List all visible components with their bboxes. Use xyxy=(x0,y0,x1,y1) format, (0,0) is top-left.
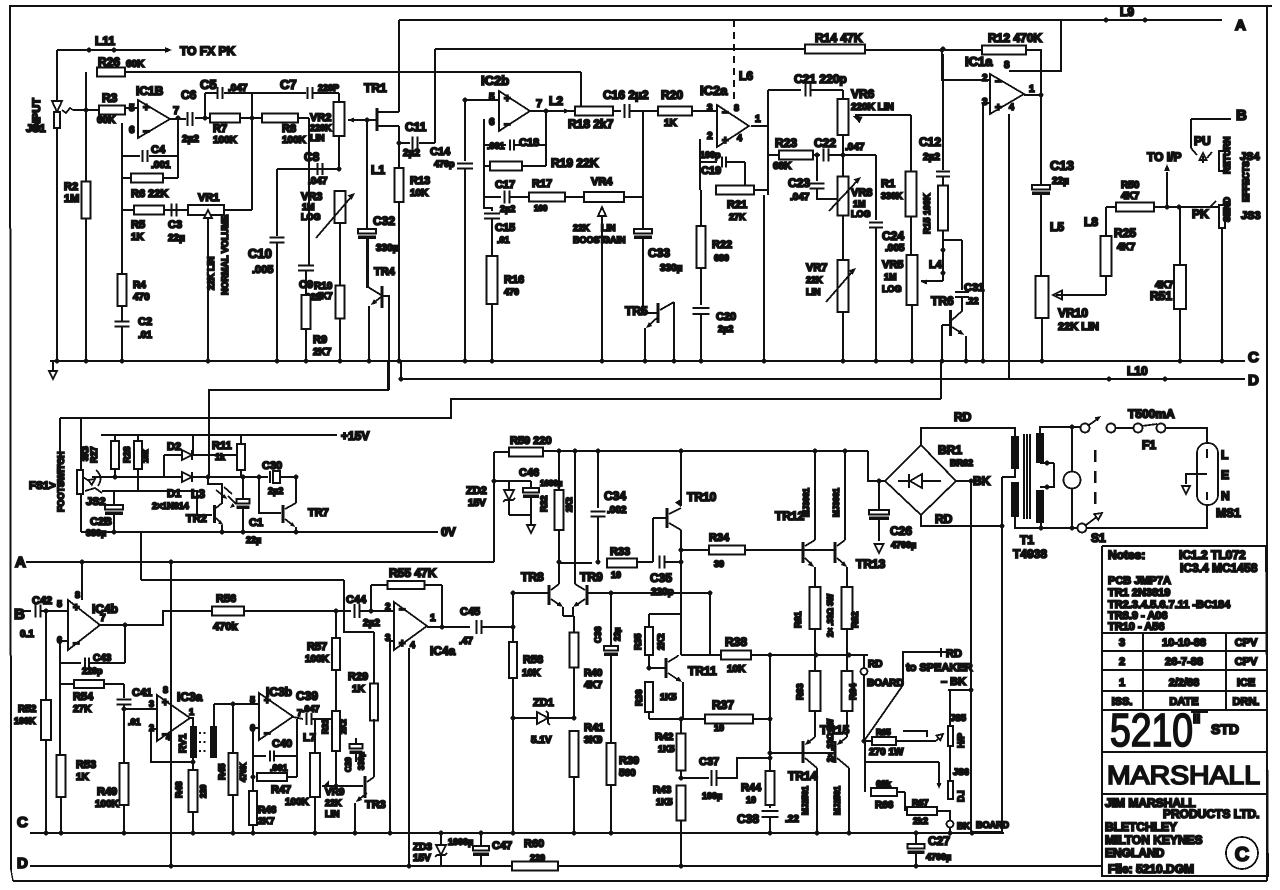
svg-text:LIN: LIN xyxy=(325,809,340,819)
svg-text:220: 220 xyxy=(530,853,545,863)
svg-text:L8: L8 xyxy=(1084,215,1098,229)
svg-text:ZD2: ZD2 xyxy=(466,485,487,497)
svg-text:1M: 1M xyxy=(64,193,79,205)
jack JS5 headphones xyxy=(949,690,951,726)
capacitor C30 2u2 xyxy=(243,476,268,478)
zener ZD3 15V xyxy=(440,833,442,845)
capacitor C28 330u xyxy=(113,491,115,505)
svg-text:22µ: 22µ xyxy=(168,233,185,244)
svg-text:R51: R51 xyxy=(1150,289,1172,303)
wire IC4a pin4 to rail D xyxy=(408,648,410,866)
svg-text:2: 2 xyxy=(385,602,391,613)
svg-text:2K7: 2K7 xyxy=(258,816,275,826)
wire C11 to +rail xyxy=(434,49,436,143)
resistor R56 470k xyxy=(212,607,244,616)
svg-text:4: 4 xyxy=(737,133,742,143)
svg-text:BR1: BR1 xyxy=(938,443,962,457)
svg-text:BR62: BR62 xyxy=(950,458,973,468)
wire T1 bottom xyxy=(1015,517,1077,528)
svg-text:1: 1 xyxy=(1029,84,1035,95)
wire IC4b output xyxy=(100,611,212,625)
svg-text:4K7: 4K7 xyxy=(1121,191,1140,202)
svg-text:22µ: 22µ xyxy=(613,627,622,641)
node L1 wire xyxy=(366,120,368,229)
svg-text:R20: R20 xyxy=(661,88,683,102)
svg-text:1K: 1K xyxy=(76,772,90,783)
svg-text:+: + xyxy=(264,695,270,707)
svg-text:330µ: 330µ xyxy=(86,528,106,538)
wire MS1 N to S1 xyxy=(1087,505,1207,528)
resistor R33 10 xyxy=(559,562,592,564)
svg-text:R3: R3 xyxy=(102,91,118,105)
resistor R10 4K7 xyxy=(336,286,345,319)
resistor R18 2k7 xyxy=(575,107,613,116)
capacitor C7 220P xyxy=(251,93,253,118)
svg-text:R35: R35 xyxy=(633,633,643,650)
svg-text:R19 22K: R19 22K xyxy=(551,156,599,170)
svg-text:BOOST: BOOST xyxy=(573,235,606,245)
svg-text:470: 470 xyxy=(504,287,519,297)
svg-text:TR5: TR5 xyxy=(625,304,648,318)
svg-text:D: D xyxy=(1248,372,1259,389)
svg-text:R16: R16 xyxy=(504,274,524,286)
svg-text:22K: 22K xyxy=(806,275,823,285)
svg-text:10K: 10K xyxy=(727,664,746,675)
svg-text:R64: R64 xyxy=(848,683,858,700)
svg-text:T500mA: T500mA xyxy=(1128,407,1175,421)
wire TR4 to footswitch xyxy=(383,296,389,390)
potentiometer VR9 22K LIN xyxy=(314,719,316,753)
resistor R9 2K7 xyxy=(302,295,311,329)
svg-text:330µ: 330µ xyxy=(660,263,683,274)
resistor R55 47K xyxy=(369,609,374,614)
svg-text:330µ: 330µ xyxy=(376,243,399,254)
svg-text:R22: R22 xyxy=(712,239,732,251)
svg-text:220p: 220p xyxy=(82,666,103,676)
svg-text:C10: C10 xyxy=(248,246,272,261)
svg-text:1: 1 xyxy=(755,114,761,125)
svg-text:L2: L2 xyxy=(549,94,563,108)
wire IC4b pin8 from net A xyxy=(80,560,85,565)
svg-text:0.1: 0.1 xyxy=(20,629,34,640)
svg-text:8: 8 xyxy=(75,590,80,600)
resistor R21 27K xyxy=(716,186,754,195)
resistor R59 220 xyxy=(494,451,509,453)
svg-text:R13: R13 xyxy=(410,175,430,187)
capacitor C32 330u xyxy=(358,229,376,234)
svg-text:BOARD: BOARD xyxy=(867,678,904,689)
resistor R45 470K xyxy=(231,702,236,707)
capacitor C11 2u2 xyxy=(397,141,402,146)
svg-text:R27: R27 xyxy=(89,446,99,463)
svg-text:100: 100 xyxy=(534,204,548,213)
zener ZD1 5.1V xyxy=(511,716,516,721)
svg-text:10-10-88: 10-10-88 xyxy=(1162,637,1206,649)
wire footswitch box left xyxy=(80,418,82,532)
svg-text:TR15: TR15 xyxy=(820,723,850,737)
svg-text:R37: R37 xyxy=(712,698,734,712)
potentiometer VR10 22K LIN xyxy=(1036,276,1049,318)
svg-text:MJ3001: MJ3001 xyxy=(802,488,811,517)
svg-text:BK: BK xyxy=(957,821,970,831)
svg-text:C1: C1 xyxy=(249,517,263,529)
resistor R25 4K7 xyxy=(1105,276,1107,295)
svg-text:C7: C7 xyxy=(280,77,297,92)
svg-text:8: 8 xyxy=(1004,60,1010,71)
svg-text:VR9: VR9 xyxy=(325,787,345,798)
svg-text:15V: 15V xyxy=(468,498,486,509)
svg-text:R32: R32 xyxy=(539,495,549,512)
svg-text:R15 100K: R15 100K xyxy=(922,193,932,234)
svg-text:R1: R1 xyxy=(881,178,895,190)
svg-text:470p: 470p xyxy=(434,159,455,169)
wire C8 line xyxy=(277,168,339,170)
svg-text:1: 1 xyxy=(1119,677,1125,689)
svg-text:1K5: 1K5 xyxy=(658,744,675,754)
capacitor C12 2u2 xyxy=(942,177,944,186)
svg-text:VR4: VR4 xyxy=(591,176,613,188)
svg-text:T1: T1 xyxy=(1020,533,1034,547)
resistor R27 3K3 xyxy=(114,435,116,445)
wire IC3b output xyxy=(293,717,303,719)
svg-text:+: + xyxy=(143,102,149,114)
svg-text:220K: 220K xyxy=(310,123,332,133)
svg-text:C40: C40 xyxy=(272,738,292,750)
svg-text:C20: C20 xyxy=(716,311,736,323)
capacitor C8 .047 xyxy=(317,163,319,175)
svg-text:R23: R23 xyxy=(775,136,797,150)
svg-text:VR8: VR8 xyxy=(851,187,872,199)
svg-text:PU: PU xyxy=(1194,134,1211,148)
svg-text:10: 10 xyxy=(746,795,756,805)
resistor R38 10K xyxy=(709,593,711,655)
svg-text:2K2: 2K2 xyxy=(565,497,574,512)
svg-text:LOG: LOG xyxy=(301,212,321,222)
wire T1 primary taps xyxy=(1040,462,1054,464)
svg-text:L10: L10 xyxy=(1127,364,1148,378)
svg-text:4: 4 xyxy=(1009,102,1014,112)
wire R38 output rail xyxy=(681,654,721,656)
svg-text:MJ3001: MJ3001 xyxy=(832,488,841,517)
resistor R58 10K xyxy=(511,625,516,630)
wire TR12 TR13 bases xyxy=(803,549,835,551)
capacitor C17 2u2 xyxy=(484,196,501,198)
resistor R23 68K xyxy=(768,154,780,156)
svg-text:JS2: JS2 xyxy=(86,496,106,508)
copyright symbol xyxy=(1226,837,1258,869)
svg-text:NORMAL VOLUME: NORMAL VOLUME xyxy=(220,215,230,295)
svg-text:4700µ: 4700µ xyxy=(891,540,916,550)
svg-text:.047: .047 xyxy=(790,192,810,203)
svg-text:D2: D2 xyxy=(167,441,181,453)
svg-text:+: + xyxy=(722,135,728,147)
svg-text:2K2: 2K2 xyxy=(656,633,666,650)
svg-text:4K7: 4K7 xyxy=(1117,242,1136,253)
earth symbol xyxy=(1186,474,1200,484)
svg-text:MARSHALL: MARSHALL xyxy=(1107,760,1260,790)
svg-text:ZD3: ZD3 xyxy=(413,842,432,853)
svg-text:R48: R48 xyxy=(174,781,184,798)
svg-text:VR5: VR5 xyxy=(882,259,903,271)
svg-text:RD: RD xyxy=(868,659,882,670)
wire fuse to MS1 xyxy=(1166,428,1207,449)
svg-text:4: 4 xyxy=(410,640,415,650)
transformer T1 T4938 secondary xyxy=(1011,436,1019,469)
svg-text:C42: C42 xyxy=(32,595,52,607)
svg-text:MILTON KEYNES: MILTON KEYNES xyxy=(1105,833,1203,847)
svg-text:CPV: CPV xyxy=(1235,637,1258,649)
svg-text:R46: R46 xyxy=(258,805,277,816)
svg-text:C22: C22 xyxy=(814,136,836,150)
svg-text:8: 8 xyxy=(734,103,739,113)
capacitor C5 .047 xyxy=(204,93,206,118)
wire R26 to IC2b xyxy=(125,71,581,73)
resistor R60 220 xyxy=(512,862,558,871)
svg-text:R33: R33 xyxy=(610,546,630,558)
svg-text:1k: 1k xyxy=(215,452,226,462)
resistor R12 470K xyxy=(865,49,982,51)
svg-text:C41: C41 xyxy=(132,687,152,699)
wire FS contact lines xyxy=(92,476,115,478)
svg-text:C: C xyxy=(17,814,28,831)
potentiometer VR3 1M LOG xyxy=(335,191,346,223)
svg-text:L7: L7 xyxy=(303,732,316,744)
svg-text:R42: R42 xyxy=(655,732,674,743)
resistor R62 .33 xyxy=(842,587,853,629)
capacitor C38 .22 xyxy=(762,810,779,812)
svg-text:2µ2: 2µ2 xyxy=(500,204,515,214)
svg-text:C9: C9 xyxy=(299,279,313,291)
wire output IC2a xyxy=(751,125,768,127)
svg-text:2µ2: 2µ2 xyxy=(268,486,283,496)
svg-text:LIN: LIN xyxy=(310,133,325,143)
svg-text:−: − xyxy=(73,638,79,650)
capacitor C34 .002 xyxy=(597,451,599,508)
wire pin2 IC1a xyxy=(940,48,945,53)
capacitor C9 .022 xyxy=(308,118,310,265)
svg-text:RD: RD xyxy=(935,512,953,526)
svg-text:+: + xyxy=(995,102,1001,114)
resistor R3 60K xyxy=(73,109,99,111)
svg-text:100K: 100K xyxy=(14,716,36,726)
resistor R47 100K xyxy=(257,773,287,781)
wire supply to power amp xyxy=(451,398,941,400)
svg-text:22K LIN: 22K LIN xyxy=(1058,321,1099,333)
resistor R50 4K7 xyxy=(1106,206,1116,208)
svg-text:100µ: 100µ xyxy=(702,791,722,801)
svg-text:C6: C6 xyxy=(181,88,197,102)
wire TO I/P arrow xyxy=(1166,172,1168,207)
svg-text:R39: R39 xyxy=(619,755,639,767)
svg-text:ZD1: ZD1 xyxy=(533,697,554,709)
svg-text:7: 7 xyxy=(536,98,542,110)
svg-text:1K: 1K xyxy=(131,232,145,243)
svg-text:C16 2µ2: C16 2µ2 xyxy=(603,88,649,102)
svg-text:3: 3 xyxy=(707,103,713,114)
potentiometer VR4 22K LIN boost gain xyxy=(584,192,624,202)
node L2 wire output IC2b xyxy=(530,110,576,112)
capacitor C47 1000u xyxy=(480,833,482,846)
wire R26 drop to R18 xyxy=(580,72,582,111)
ground arrow left xyxy=(52,361,54,371)
svg-text:IC4a: IC4a xyxy=(430,644,456,658)
svg-text:1M: 1M xyxy=(302,202,315,212)
svg-text:470k: 470k xyxy=(213,621,238,633)
svg-text:R38: R38 xyxy=(725,635,747,649)
svg-text:VR7: VR7 xyxy=(806,262,827,274)
svg-text:ICE: ICE xyxy=(1237,677,1255,689)
svg-text:C38: C38 xyxy=(737,812,759,826)
svg-text:TR9: TR9 xyxy=(580,570,603,584)
switch S1 xyxy=(1081,424,1090,433)
capacitor C29 330u xyxy=(355,738,357,744)
svg-text:6: 6 xyxy=(129,125,135,136)
svg-text:IC2b: IC2b xyxy=(481,73,509,88)
svg-text:L1: L1 xyxy=(371,163,385,177)
mains connector MS1 xyxy=(1197,443,1218,505)
svg-text:TR12: TR12 xyxy=(775,509,805,523)
wire pin3 IC1a xyxy=(983,103,990,361)
node L4 wire xyxy=(942,240,944,281)
svg-text:TR14: TR14 xyxy=(788,769,818,783)
svg-text:C34: C34 xyxy=(604,489,626,503)
svg-text:C17: C17 xyxy=(495,179,515,191)
svg-text:R12 470K: R12 470K xyxy=(988,31,1042,45)
svg-text:1000µ: 1000µ xyxy=(448,837,473,847)
svg-text:File: 5210.DGM: File: 5210.DGM xyxy=(1108,862,1194,876)
svg-text:R29: R29 xyxy=(348,671,368,683)
svg-text:.01: .01 xyxy=(497,235,510,245)
svg-text:R47: R47 xyxy=(271,784,291,796)
wire rail D upper xyxy=(400,361,402,379)
capacitor C2 .01 xyxy=(115,321,130,323)
svg-text:R62: R62 xyxy=(850,611,860,628)
svg-text:4700µ: 4700µ xyxy=(926,852,951,862)
svg-text:R11: R11 xyxy=(212,440,232,452)
resistor R39 560 xyxy=(607,743,616,785)
svg-text:−: − xyxy=(722,107,728,119)
svg-text:8: 8 xyxy=(163,685,168,695)
svg-text:FOOTSWITCH: FOOTSWITCH xyxy=(56,452,66,513)
mains isolation dashed xyxy=(1094,450,1097,510)
svg-text:5: 5 xyxy=(489,92,495,103)
svg-text:E: E xyxy=(1221,468,1229,482)
wire IC1a output xyxy=(1024,95,1041,185)
svg-text:ENGLAND: ENGLAND xyxy=(1105,846,1165,860)
wire IC3a pin3 xyxy=(122,707,127,712)
svg-text:C26: C26 xyxy=(890,524,912,538)
resistor R53 1K xyxy=(59,684,61,755)
svg-text:R57: R57 xyxy=(307,641,327,653)
svg-text:220P: 220P xyxy=(318,83,339,93)
svg-text:.047: .047 xyxy=(845,142,865,153)
svg-text:D.I: D.I xyxy=(956,790,966,802)
svg-text:220K LIN: 220K LIN xyxy=(851,102,894,113)
resistor R40 4K7 xyxy=(570,633,579,668)
capacitor C35 220p xyxy=(659,556,661,569)
svg-text:100K: 100K xyxy=(282,135,307,146)
svg-text:JS3: JS3 xyxy=(1241,210,1261,222)
resistor R41 3K9 xyxy=(570,731,579,777)
svg-text:R50: R50 xyxy=(1121,180,1140,191)
resistor R26 60K xyxy=(85,72,87,110)
svg-text:C29: C29 xyxy=(344,757,353,772)
capacitor C6 2u2 xyxy=(170,118,186,120)
svg-text:S1: S1 xyxy=(1091,531,1106,545)
svg-text:CPV: CPV xyxy=(1235,656,1258,668)
svg-text:2µ2: 2µ2 xyxy=(363,618,380,629)
svg-text:270 1W: 270 1W xyxy=(869,747,904,758)
svg-text:1K: 1K xyxy=(352,684,366,695)
resistor R63 .33 xyxy=(814,655,816,671)
svg-text:10: 10 xyxy=(611,570,621,580)
svg-text:+: + xyxy=(162,697,168,709)
svg-text:LIN: LIN xyxy=(601,223,616,233)
svg-text:C39: C39 xyxy=(296,689,318,703)
wire T1 centre tap xyxy=(1002,469,1015,477)
svg-text:1M: 1M xyxy=(853,199,866,209)
svg-text:C45: C45 xyxy=(460,606,480,618)
svg-text:C15: C15 xyxy=(495,222,515,234)
svg-text:.047: .047 xyxy=(308,176,328,187)
capacitor C16 2u2 xyxy=(624,104,626,118)
svg-text:STD: STD xyxy=(1211,721,1239,737)
svg-text:.22: .22 xyxy=(966,296,979,306)
svg-text:PK: PK xyxy=(1192,207,1209,221)
resistor R57 100K xyxy=(334,609,339,614)
svg-text:22K: 22K xyxy=(573,223,590,233)
potentiometer VR7 22K LIN xyxy=(838,260,849,312)
capacitor C13 22u xyxy=(1032,185,1050,190)
capacitor C24 .005 xyxy=(875,155,877,220)
capacitor C10 .005 xyxy=(276,169,278,236)
svg-text:−: − xyxy=(143,126,149,138)
svg-text:GAIN: GAIN xyxy=(603,235,626,245)
svg-text:3: 3 xyxy=(1119,637,1125,649)
svg-text:5.1V: 5.1V xyxy=(531,735,552,746)
resistor R54 27K xyxy=(59,663,61,684)
wire input node xyxy=(73,109,99,111)
svg-text:0V: 0V xyxy=(441,525,456,539)
svg-text:RETURN: RETURN xyxy=(1222,137,1232,175)
capacitor C46 1000u xyxy=(530,481,532,488)
resistor R49 100K xyxy=(120,763,129,805)
svg-text:2µ2: 2µ2 xyxy=(403,148,420,159)
svg-text:R18 2k7: R18 2k7 xyxy=(568,117,614,131)
svg-text:H/P: H/P xyxy=(956,733,966,748)
svg-text:330K: 330K xyxy=(881,191,903,201)
svg-text:−: − xyxy=(504,119,510,131)
svg-text:N: N xyxy=(1221,489,1230,503)
svg-text:2× .33Ω 3W: 2× .33Ω 3W xyxy=(826,593,835,637)
svg-text:C13: C13 xyxy=(1050,158,1074,173)
voltage selector circle xyxy=(1071,427,1073,472)
wire main supply rail xyxy=(557,449,562,454)
svg-text:JS1: JS1 xyxy=(26,123,46,135)
capacitor C3 22u xyxy=(164,209,210,211)
svg-text:R61: R61 xyxy=(793,611,803,628)
resistor R43 1K5 xyxy=(677,786,686,821)
svg-text:C2B: C2B xyxy=(90,516,112,528)
resistor R66 68k xyxy=(871,788,897,796)
svg-text:1: 1 xyxy=(189,707,194,717)
wire T1 primary top xyxy=(1040,427,1081,433)
svg-text:C35: C35 xyxy=(650,571,672,585)
svg-text:−: − xyxy=(399,604,405,616)
svg-text:2K7: 2K7 xyxy=(313,347,332,358)
svg-text:IC2a: IC2a xyxy=(700,83,728,98)
svg-text:L9: L9 xyxy=(1120,5,1134,19)
